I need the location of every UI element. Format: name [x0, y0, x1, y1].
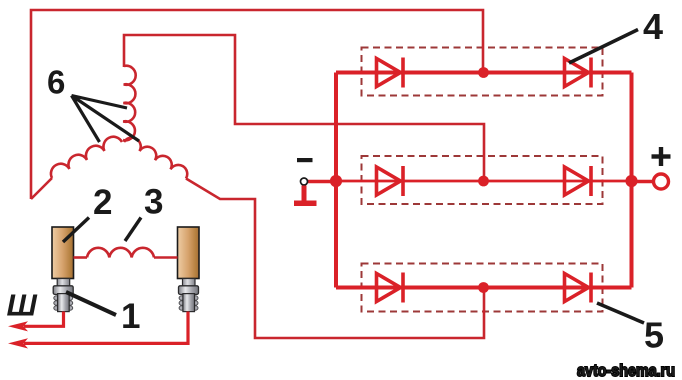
pointer 4 — [569, 30, 638, 64]
plus sign — [652, 147, 671, 166]
junction dot mid row 5 — [478, 282, 489, 293]
wire phase C to bottom row — [186, 179, 484, 339]
dashed box middle diode pair — [362, 156, 603, 204]
svg-text:avto-shema.ru: avto-shema.ru — [577, 361, 675, 380]
junction dot right bus middle — [625, 175, 637, 187]
diode right of row mid — [565, 166, 592, 196]
winding 3 between brushes — [74, 248, 178, 258]
wire bus row y=72.5 — [336, 71, 632, 75]
minus terminal circle — [301, 178, 308, 185]
winding phase A (left slope, label 6) — [51, 137, 122, 178]
svg-text:4: 4 — [643, 6, 663, 47]
svg-text:5: 5 — [644, 315, 664, 356]
pointer lines 6 — [72, 96, 140, 143]
plus terminal wire — [632, 180, 656, 184]
brush 2 left — [52, 227, 74, 279]
ground symbol — [294, 186, 317, 207]
wire phase A diagonal to winding — [31, 178, 52, 199]
arrowhead Ш upper — [8, 321, 28, 331]
plus terminal ring — [654, 174, 669, 189]
svg-text:2: 2 — [93, 183, 112, 222]
diode right of row 5 — [565, 273, 592, 303]
wire right bus bar — [630, 73, 634, 288]
wire bus row y=181 — [336, 180, 632, 183]
diode right of row 4 — [565, 58, 592, 88]
pointer 2 — [63, 218, 89, 243]
minus terminal wire — [306, 180, 336, 184]
minus sign — [297, 158, 313, 162]
dashed box top diode pair — [362, 48, 603, 96]
svg-text:1: 1 — [121, 297, 140, 336]
svg-text:Ш: Ш — [7, 288, 38, 323]
wire Ш lower lead — [24, 312, 188, 344]
pointer 3 — [125, 218, 141, 242]
junction dot mid row 4 — [478, 67, 489, 78]
wire phase A outer loop — [31, 10, 483, 199]
winding phase B (vertical coil, label 6) — [123, 66, 136, 141]
junction dot left bus middle — [330, 175, 342, 187]
arrowhead Ш lower — [8, 338, 28, 348]
diode left of row mid — [377, 166, 404, 196]
pointer 1 — [66, 292, 116, 315]
diode left of row 4 — [377, 58, 404, 88]
winding phase C (right slope, label 6) — [124, 138, 187, 179]
brush holder right — [179, 279, 199, 312]
junction dot mid row mid — [478, 176, 489, 187]
brush holder left (label 1) — [53, 279, 73, 312]
pointer 5 — [597, 303, 644, 323]
wire left bus bar — [334, 73, 338, 288]
diode left of row 5 — [377, 273, 404, 303]
wire phase B top — [124, 35, 484, 181]
wire bus row y=287.5 — [336, 286, 632, 290]
dashed box bottom diode pair — [362, 264, 603, 312]
svg-text:6: 6 — [47, 64, 65, 101]
wire Ш upper lead — [24, 312, 64, 327]
svg-text:3: 3 — [144, 183, 163, 222]
brush right — [178, 227, 200, 279]
